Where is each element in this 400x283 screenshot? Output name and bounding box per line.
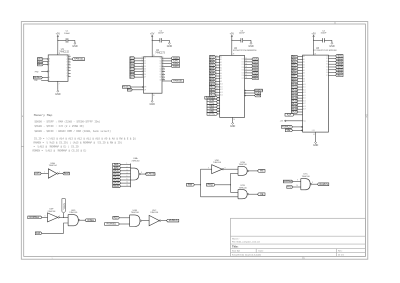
svg-text:74HC04: 74HC04	[213, 162, 222, 164]
svg-text:D3: D3	[144, 66, 146, 68]
page border inner	[24, 24, 366, 256]
global label OE to U3	[285, 129, 292, 132]
global label A14 to U6D	[35, 232, 42, 235]
svg-text:1: 1	[51, 258, 52, 260]
wire +5V to U3 VCC	[313, 40, 315, 55]
pin U4 right 6	[162, 73, 165, 75]
title block	[231, 218, 366, 256]
wire U3 address A16	[298, 100, 303, 102]
ground below U2	[232, 117, 234, 121]
svg-text:E: E	[49, 77, 50, 79]
svg-text:+5V: +5V	[311, 32, 316, 35]
junction at U6D input	[63, 217, 64, 218]
svg-text:74HC132: 74HC132	[59, 51, 69, 53]
wire U2 address A0	[216, 56, 220, 58]
junction at C1	[57, 40, 58, 41]
ground below U3	[315, 132, 317, 141]
global label ROMCS out of U5C	[167, 219, 179, 222]
global label D1	[130, 59, 135, 62]
svg-text:16: 16	[246, 72, 248, 74]
svg-text:GND: GND	[55, 93, 61, 96]
global label D7 U3	[336, 74, 343, 77]
svg-text:Sheet: /: Sheet: /	[232, 237, 240, 240]
svg-text:$7E00 - $7FFF : I/O (2 x 256: $7E00 - $7FFF : I/O (2 x 256B IO)	[34, 125, 84, 128]
svg-text:CP: CP	[144, 89, 146, 91]
svg-text:BD7: BD7	[338, 75, 343, 77]
svg-text:11: 11	[246, 58, 248, 60]
svg-text:Q4: Q4	[159, 69, 161, 71]
wire RAMSEL to U7C	[293, 181, 301, 183]
wire U3 data D7	[328, 74, 335, 76]
svg-text:74HC30: 74HC30	[131, 160, 140, 162]
svg-text:62256/27C256 M5M5256: 62256/27C256 M5M5256	[233, 50, 257, 52]
pin U4 right 4	[162, 68, 165, 70]
svg-text:IO6: IO6	[242, 75, 244, 77]
svg-text:Y: Y	[66, 70, 67, 72]
svg-text:100nF: 100nF	[239, 33, 246, 35]
svg-text:A14: A14	[36, 232, 41, 235]
svg-text:PHI2: PHI2	[127, 89, 131, 91]
wire U7A out	[249, 170, 258, 172]
global label A14 U3	[292, 94, 299, 97]
svg-text:19: 19	[216, 86, 218, 88]
svg-text:IOA3: IOA3	[173, 65, 179, 68]
global label D2 U2	[252, 63, 258, 66]
svg-text:20: 20	[216, 83, 218, 85]
global label A20 U3	[292, 111, 299, 114]
global label D7 U2	[252, 77, 258, 80]
global label BA14	[38, 60, 44, 63]
svg-text:100nF: 100nF	[158, 33, 165, 35]
svg-text:IOSEL: IOSEL	[63, 203, 65, 210]
global label A14 U3	[285, 113, 294, 116]
wire A15 to U5A	[41, 173, 48, 175]
global label NMI to U2	[207, 110, 218, 113]
svg-text:Q5: Q5	[159, 71, 161, 73]
wire U1 input BA13	[43, 58, 47, 60]
global label A15 to U6B	[113, 216, 120, 219]
wire +5V to U1 VCC	[57, 40, 59, 55]
wire U3 address A8	[298, 78, 303, 80]
svg-text:17: 17	[216, 91, 218, 93]
global label A8 U2	[210, 77, 216, 80]
inverter U5D 74HC04	[212, 165, 223, 174]
svg-text:PHI2: PHI2	[208, 184, 214, 186]
wire BA11 to U6A	[121, 173, 131, 175]
svg-text:ROMSEL: ROMSEL	[107, 224, 117, 226]
global label IOA1	[171, 60, 179, 63]
wire ROMSEL to U6B	[119, 223, 129, 225]
wire U6D out	[80, 219, 85, 221]
svg-text:$8000 - $FFFF : BASIC ROM /: $8000 - $FFFF : BASIC ROM / RAM (32kB, b…	[34, 130, 111, 133]
power +5V for U4 and capacitor C2	[151, 37, 153, 41]
svg-text:GND: GND	[167, 45, 173, 48]
wire BA15 to U6A	[121, 185, 131, 187]
global label RW to U2	[207, 99, 218, 102]
svg-text:Id: 1/1: Id: 1/1	[338, 254, 345, 256]
svg-text:15: 15	[246, 69, 248, 71]
wire BA10 to U6A	[121, 170, 131, 172]
global label D5 U3	[336, 68, 343, 71]
svg-text:OE: OE	[287, 130, 291, 132]
ground below U1	[57, 81, 59, 89]
nand U7A 74HC00	[237, 166, 239, 175]
svg-text:SYNC: SYNC	[209, 114, 216, 116]
global label D6	[130, 73, 135, 76]
global label OE U2	[255, 92, 261, 95]
wire U2 data D5	[245, 72, 252, 74]
svg-text:D1: D1	[144, 60, 146, 62]
wire U3 address A19	[298, 108, 303, 110]
global label A11 U3	[292, 86, 299, 89]
wire U3 address A6	[298, 72, 303, 74]
wire U2 data D3	[245, 66, 252, 68]
wire U2 address A14	[216, 94, 220, 96]
wire U3 data D1	[328, 58, 335, 60]
global label A13 U2	[210, 91, 216, 94]
global label BA15 out of U5A	[63, 172, 70, 175]
svg-text:74HC04: 74HC04	[47, 211, 56, 213]
svg-text:BA14: BA14	[37, 60, 42, 63]
svg-text:File: 6502_computer_rev2.sch: File: 6502_computer_rev2.sch	[232, 240, 261, 243]
svg-text:12: 12	[246, 61, 248, 63]
svg-text:GND: GND	[329, 45, 335, 48]
svg-text:14: 14	[313, 134, 315, 136]
nand U7C 74HC00	[300, 179, 302, 190]
svg-text:17: 17	[246, 74, 248, 76]
svg-text:WE: WE	[256, 95, 260, 97]
svg-text:100nF: 100nF	[64, 33, 71, 35]
nand U7B 74HC00	[237, 190, 239, 199]
svg-text:5: 5	[304, 258, 305, 260]
svg-text:D4: D4	[144, 68, 146, 70]
svg-text:16: 16	[216, 94, 218, 96]
wire PHI2 vertical	[230, 173, 232, 192]
wire U3 address A17	[298, 103, 303, 105]
wire U2 address A1	[216, 59, 220, 61]
wire U2 OE	[245, 92, 254, 94]
global label A12 U2	[210, 88, 216, 91]
svg-text:Q8: Q8	[159, 79, 161, 81]
svg-text:BA14: BA14	[113, 182, 119, 185]
wire U3 data D2	[328, 60, 335, 62]
svg-text:+5V: +5V	[150, 32, 155, 35]
svg-text:O6: O6	[326, 72, 328, 74]
pin U1 right 2	[68, 58, 71, 60]
svg-text:RAMSEL: RAMSEL	[173, 80, 183, 83]
wire IOSEL label drop	[63, 213, 65, 218]
global label D0 U2	[252, 58, 258, 61]
wire U2 address A3	[216, 64, 220, 66]
global label A5 U2	[210, 69, 216, 72]
wire U2 address A5	[216, 70, 220, 72]
global label D6 U3	[336, 71, 343, 74]
svg-text:BA20: BA20	[291, 111, 297, 114]
global label RAMSEL out of U1	[72, 58, 85, 61]
svg-text:Q2: Q2	[159, 63, 161, 65]
wire RESET to U1	[42, 77, 48, 79]
svg-text:100nF: 100nF	[321, 33, 328, 35]
wire U3 address A2	[298, 61, 303, 63]
global label IOA3	[171, 65, 179, 68]
pin U1 right 7	[68, 73, 71, 75]
svg-text:B: B	[49, 61, 50, 63]
global label SYNC to U2	[207, 113, 218, 116]
global label D3 U2	[252, 66, 258, 69]
svg-text:18: 18	[163, 78, 165, 80]
global label BA11	[113, 172, 121, 175]
wire U2 data D6	[245, 75, 252, 77]
svg-text:A15: A15	[35, 172, 40, 175]
global label D3 U3	[336, 63, 343, 66]
wire U3 address A18	[298, 105, 303, 107]
wire U1 input BA14	[43, 61, 47, 63]
svg-text:IO4: IO4	[242, 70, 244, 72]
wire U4 input D3	[135, 65, 144, 67]
wire U2 address A7	[216, 75, 220, 77]
wire U3 address A10	[298, 83, 303, 85]
svg-text:ROMSEL: ROMSEL	[146, 174, 156, 176]
wire PHI2 to U7A	[231, 172, 239, 174]
svg-text:O0: O0	[326, 55, 328, 57]
wire U4 input D5	[135, 71, 144, 73]
global label D0 U3	[336, 55, 343, 58]
global label IOA0	[171, 57, 179, 60]
wire U3 address A1	[298, 58, 303, 60]
wire U4 input D6	[135, 73, 144, 75]
global label IOSEL out of U6D	[85, 219, 95, 222]
power +5V for U1 and capacitor C1	[57, 37, 59, 41]
svg-text:Y: Y	[66, 56, 67, 58]
wire U5C out	[161, 220, 167, 222]
wire BA8 to U6A	[121, 164, 131, 166]
wire U2 WE	[245, 95, 254, 97]
svg-text:GND: GND	[312, 130, 315, 132]
global label D2	[130, 62, 135, 65]
global label BA8	[113, 163, 121, 166]
wire BA13 to U6A	[121, 179, 131, 181]
global label D5 U2	[252, 72, 258, 75]
wire U2 data D0	[245, 58, 252, 60]
wire PHI2 to junction	[215, 184, 231, 186]
global label IOSEL out of U4	[171, 80, 184, 83]
svg-text:74HC273: 74HC273	[155, 52, 165, 54]
svg-text:D6: D6	[144, 74, 146, 76]
svg-text:10: 10	[216, 56, 218, 58]
global label A15 U3	[292, 97, 299, 100]
ground below U4	[151, 93, 153, 100]
global label ROMCS to U3	[281, 126, 292, 129]
svg-text:10: 10	[296, 185, 298, 187]
wire U2 address A2	[216, 61, 220, 63]
wire +5V to U2 VCC	[231, 40, 233, 55]
global label A4 U3	[292, 66, 299, 69]
global label A16 U3	[292, 100, 299, 103]
nand U6D 74HC00	[67, 215, 69, 226]
svg-text:RAMEN = !(!A15 & CS_IO) | (A1: RAMEN = !(!A15 & CS_IO) | (A15 & ROMMAP …	[34, 141, 123, 144]
wire U2 data D7	[245, 77, 252, 79]
svg-text:74HC00: 74HC00	[302, 176, 311, 178]
svg-text:12: 12	[127, 185, 129, 187]
wire A14 U3	[294, 114, 303, 116]
global label PHI2 to U4	[127, 88, 132, 91]
global label A13 U3	[292, 91, 299, 94]
svg-text:GND: GND	[72, 45, 78, 48]
svg-text:WE: WE	[260, 171, 264, 173]
global label RESET	[33, 76, 42, 79]
global label ROMSEL to U5F	[28, 216, 42, 219]
svg-text:IO2: IO2	[242, 64, 244, 66]
svg-text:13: 13	[246, 63, 248, 65]
pin U1 right 8	[68, 76, 71, 78]
wire BA12 to U6A	[121, 176, 131, 178]
global label WE out	[258, 170, 266, 173]
global label A15 to U5A	[35, 172, 42, 175]
IC U3 27C256 ROM	[303, 55, 329, 132]
global label A2 U3	[292, 61, 299, 64]
wire U3 data D4	[328, 66, 335, 68]
svg-text:D0: D0	[144, 58, 146, 60]
wire U3 data D6	[328, 72, 335, 74]
svg-text:Q3: Q3	[159, 66, 161, 68]
svg-text:R/W: R/W	[34, 80, 38, 82]
global label A8 U3	[292, 77, 299, 80]
wire U1 input BA15	[43, 64, 47, 66]
wire U2 CE	[245, 90, 254, 92]
global label D6 U2	[252, 74, 258, 77]
wire U2 address A6	[216, 72, 220, 74]
global label RW to gates	[187, 183, 195, 186]
wire U3 address A3	[298, 64, 303, 66]
svg-text:IOSEL: IOSEL	[87, 220, 94, 222]
svg-text:+5V: +5V	[56, 32, 61, 35]
wire U5A out	[58, 173, 62, 175]
nand U6B 74HC00	[129, 215, 131, 227]
svg-text:PH2: PH2	[35, 71, 39, 73]
global label A11 U2	[210, 86, 216, 89]
wire U4 input D4	[135, 68, 144, 70]
IC U4 74HC273	[144, 57, 163, 93]
svg-text:O4: O4	[326, 66, 328, 68]
svg-text:D5: D5	[144, 71, 146, 73]
svg-text:BD7: BD7	[253, 78, 258, 80]
wire RW to junction	[195, 184, 201, 186]
pin U4 right 7	[162, 76, 165, 78]
svg-text:Memory Map: Memory Map	[34, 113, 53, 117]
global label RAMCS	[254, 89, 262, 92]
svg-text:D7: D7	[144, 77, 146, 79]
global label IOA2	[171, 62, 179, 65]
global label BA12	[113, 176, 121, 179]
global label D7	[130, 76, 135, 79]
wire BA14 to U6A	[121, 182, 131, 184]
global label A2 U2	[210, 61, 216, 64]
wire U2 address A9	[216, 80, 220, 82]
svg-text:ROMEN = !(A15 & !ROMMAP & CS_: ROMEN = !(A15 & !ROMMAP & CS_IO & E)	[33, 150, 88, 153]
wire VPP U3	[286, 120, 303, 122]
wire U4 input D0	[135, 57, 144, 59]
global label A10 U2	[210, 83, 216, 86]
wire U3 data D3	[328, 63, 335, 65]
svg-text:Y: Y	[66, 73, 67, 75]
wire U2 address A11	[216, 86, 220, 88]
svg-text:11: 11	[127, 182, 129, 184]
svg-text:O2: O2	[326, 61, 328, 63]
global label A1 U3	[292, 58, 299, 61]
global label RAMSEL to U2	[205, 96, 218, 99]
svg-text:CS_IO = !(!A15 & A14 & A13 &: CS_IO = !(!A15 & A14 & A13 & A12 & A11 &…	[34, 137, 137, 140]
pin U1 right 4	[68, 64, 71, 66]
svg-text:10: 10	[163, 68, 165, 70]
svg-text:14: 14	[246, 66, 248, 68]
svg-text:Q7: Q7	[159, 77, 161, 79]
svg-text:11: 11	[68, 61, 70, 63]
svg-text:Y: Y	[66, 67, 67, 69]
border zone tick bottom	[302, 256, 304, 259]
svg-text:16: 16	[163, 76, 165, 78]
pin U4 right 3	[162, 65, 171, 67]
pin U1 right 5	[68, 67, 71, 69]
svg-text:O5: O5	[326, 69, 328, 71]
junction RW	[200, 184, 201, 185]
global label ROMSEL to U6B	[105, 223, 120, 226]
global label A6 U3	[292, 72, 299, 75]
svg-text:Y: Y	[66, 62, 67, 64]
global label A0 U3	[292, 55, 299, 58]
global label D4 U2	[252, 69, 258, 72]
global label A5 U3	[292, 69, 299, 72]
svg-text:10: 10	[153, 95, 155, 97]
global label D0	[130, 57, 135, 60]
power +5V for U3 and capacitor C4	[313, 37, 315, 41]
wire U3 address A11	[298, 86, 303, 88]
pin U4 right 2	[162, 63, 171, 65]
wire U3 address A15	[298, 97, 303, 99]
global label A7 U3	[292, 75, 299, 78]
svg-text:$0000 - $7DFF : RAM (32kB -: $0000 - $7DFF : RAM (32kB - $7E00-$7FFF …	[34, 120, 101, 123]
svg-text:ROMSEL: ROMSEL	[29, 217, 39, 219]
wire ROMSEL to U5F	[42, 216, 48, 218]
global label A9 U3	[292, 80, 299, 83]
svg-text:13: 13	[68, 55, 70, 57]
svg-text:C: C	[49, 64, 50, 66]
wire RW to U7B lower input	[201, 196, 239, 198]
svg-text:RAMSEL: RAMSEL	[283, 180, 293, 183]
wire U1 RAMSEL	[68, 58, 72, 60]
wire U3 address A13	[298, 92, 303, 94]
svg-text:Y: Y	[66, 59, 67, 61]
svg-text:IO1: IO1	[242, 61, 244, 63]
wire +5V to U4 VCC	[151, 40, 153, 57]
svg-text:= !(A15 & !ROMMAP & E) | CS_IO: = !(A15 & !ROMMAP & E) | CS_IO	[34, 145, 80, 148]
global label RES to U2	[207, 104, 218, 107]
global label A19 U3	[292, 108, 299, 111]
global label A17 U3	[292, 102, 299, 105]
svg-text:BA11: BA11	[113, 172, 119, 175]
global label D4 U3	[336, 66, 343, 69]
svg-text:ROMCS: ROMCS	[169, 220, 178, 222]
wire U3 address A7	[298, 75, 303, 77]
wire A15 to U6B	[119, 217, 129, 219]
wire PHI2 to U7C	[293, 186, 301, 188]
svg-text:A15: A15	[114, 216, 119, 219]
svg-text:74HC00: 74HC00	[69, 212, 78, 214]
svg-text:BA10: BA10	[113, 169, 119, 172]
wire U2 data D1	[245, 61, 252, 63]
global label BA15	[38, 63, 44, 66]
wire BA9 to U6A	[121, 167, 131, 169]
global label IRQ to U2	[207, 107, 218, 110]
